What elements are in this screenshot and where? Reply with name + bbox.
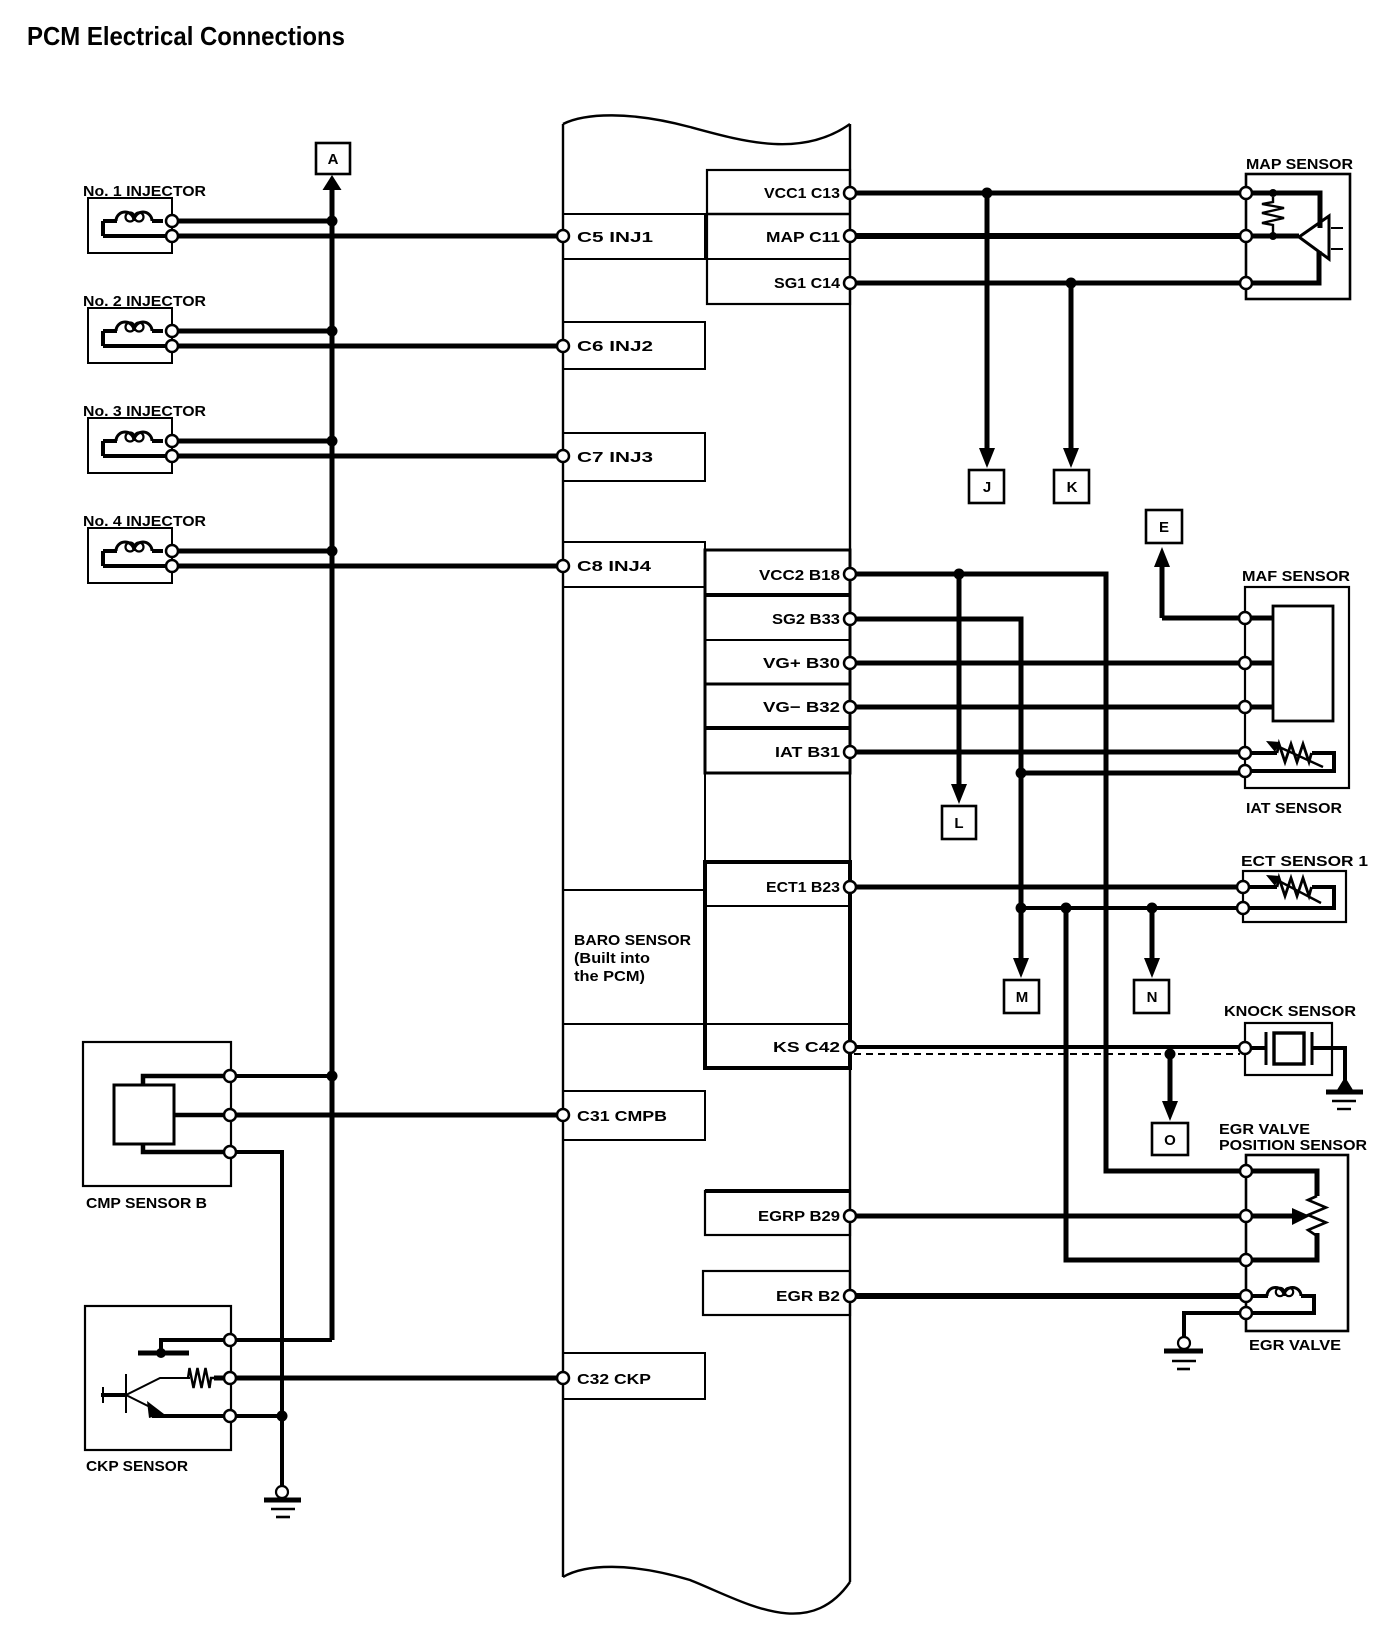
potentiometer R-egrp [1246, 1171, 1317, 1196]
coil L2 [116, 322, 152, 331]
svg-text:CKP SENSOR: CKP SENSOR [86, 1458, 188, 1475]
wire down to connector K [1069, 283, 1074, 450]
wire SG2 branch to IAT sensor [1021, 771, 1245, 776]
wiper arrowhead [1292, 1208, 1310, 1225]
wire VCC2 B18 to EGRP sensor [850, 574, 1246, 1171]
inner partition tall box [563, 587, 705, 890]
ground G-knock [1326, 1077, 1363, 1109]
core contact dot and bar [138, 1351, 189, 1356]
wire IAT B31 to IAT sensor [850, 750, 1245, 755]
junction SG2/ECT return [1016, 903, 1027, 914]
terminal circles injector4 [166, 545, 178, 572]
wire down to connector M [1019, 908, 1024, 960]
junction MAP internal top [1269, 189, 1277, 197]
PCM body outline [563, 115, 850, 1613]
wire down to connector J [985, 193, 990, 450]
wire MAP C11 to MAP sensor [850, 233, 1246, 239]
wire CMP top to bus A [230, 1074, 332, 1078]
junction ECT return/N [1147, 903, 1158, 914]
svg-text:IAT B31: IAT B31 [775, 744, 840, 761]
PCM left pin-label boxes [563, 214, 705, 1399]
wire ECT1 B23 to ECT sensor [850, 885, 1243, 890]
wire SG2 B33 vertical [850, 619, 1021, 908]
piezo element [1245, 1046, 1266, 1050]
connector box J [969, 470, 1004, 503]
injector No.1 body [88, 198, 172, 253]
svg-text:VG+ B30: VG+ B30 [763, 655, 840, 672]
connector box A [316, 143, 350, 174]
PCM left pin labels [577, 229, 667, 1388]
pin box C32 CKP [563, 1353, 705, 1399]
wire MAF power to E [1162, 616, 1245, 621]
wire injector2 to bus A [172, 329, 332, 334]
PCM right pin-group box ECT1/KS [705, 862, 850, 1068]
injector No.2 body [88, 308, 172, 363]
MAF sensor body [1245, 587, 1349, 788]
junction bus/injector2 [327, 326, 338, 337]
svg-text:L: L [954, 815, 963, 832]
connector box K [1054, 470, 1089, 503]
arrowhead to A [323, 175, 342, 190]
PCM left edge terminal circles [557, 230, 569, 1384]
thermistor R-iat [1245, 753, 1334, 771]
ECT thermistor arrowhead [1266, 875, 1280, 886]
svg-text:PCM Electrical Connections: PCM Electrical Connections [27, 21, 345, 51]
svg-text:C32 CKP: C32 CKP [577, 1371, 651, 1388]
wire CKP bottom [152, 1414, 282, 1418]
svg-text:A: A [328, 151, 339, 168]
wire down to connector L [957, 574, 962, 786]
pin box C6 INJ2 [563, 322, 705, 369]
junction VCC1/J [982, 188, 993, 199]
wire injector4 to C8 INJ4 [172, 564, 563, 569]
wire injector1 to bus A [172, 219, 332, 224]
svg-text:SG2 B33: SG2 B33 [772, 611, 840, 628]
junction SG1/K [1066, 278, 1077, 289]
wire EGR B2 to EGR valve [850, 1293, 1246, 1299]
wire EGR valve to ground [1184, 1313, 1246, 1337]
junction SG2/IAT return [1016, 768, 1027, 779]
junction ECT return / EGRP low vertical [1061, 903, 1072, 914]
junction bus/injector3 [327, 436, 338, 447]
svg-text:ECT SENSOR 1: ECT SENSOR 1 [1241, 853, 1368, 870]
svg-text:KS C42: KS C42 [773, 1039, 840, 1056]
injector No.4 body [88, 528, 172, 583]
junction MAP internal bottom [1269, 232, 1277, 240]
pin box C8 INJ4 [563, 542, 705, 587]
connector box N [1134, 980, 1169, 1013]
pin box C5 INJ1 [563, 214, 705, 259]
PCM right pin-group box VCC2..IAT [705, 550, 850, 773]
wiper wire [1246, 1214, 1294, 1219]
CMP sensor B body [83, 1042, 231, 1186]
wire KS C42 to knock sensor [850, 1045, 1245, 1049]
PCM right pin box EGRP B29 [705, 1191, 850, 1235]
pin box C7 INJ3 [563, 433, 705, 481]
svg-text:K: K [1067, 479, 1078, 496]
connector box E with arrow [1160, 565, 1165, 618]
wire SG1 C14 to MAP sensor [850, 281, 1246, 286]
terminal circles CKP [224, 1334, 236, 1422]
svg-text:C7 INJ3: C7 INJ3 [577, 449, 653, 466]
PCM right pin box EGR B2 [703, 1271, 850, 1315]
junction bus/CMP [327, 1071, 338, 1082]
terminal circles injector3 [166, 435, 178, 462]
PCM right edge terminal circles [844, 187, 856, 1302]
svg-text:C8 INJ4: C8 INJ4 [577, 558, 652, 575]
ECT terminal circles [1237, 881, 1249, 914]
svg-text:C31 CMPB: C31 CMPB [577, 1108, 667, 1125]
EGR valve assembly body [1246, 1155, 1348, 1331]
BARO sensor area bottom line [563, 1023, 705, 1025]
resistor R-map [1262, 197, 1284, 233]
resistor R-ckp [188, 1368, 214, 1388]
PCM right pin labels [758, 185, 841, 1305]
IAT thermistor arrowhead [1266, 741, 1280, 752]
wire CMP mid to C31 CMPB [230, 1113, 563, 1118]
wire injector2 to C6 INJ2 [172, 344, 563, 349]
coil L1 [116, 212, 152, 221]
svg-text:MAP C11: MAP C11 [766, 229, 840, 246]
svg-text:MAP SENSOR: MAP SENSOR [1246, 156, 1353, 173]
wire CKP top to bus A [230, 1338, 332, 1342]
winding arrowhead [147, 1401, 164, 1418]
svg-text:(Built into: (Built into [574, 950, 650, 967]
pickup coil internal wiring [161, 1340, 230, 1351]
pin box C31 CMPB [563, 1091, 705, 1140]
MAP sensor body [1246, 174, 1350, 299]
wire EGRP B29 to EGR position sensor [850, 1214, 1246, 1219]
CKP sensor body [85, 1306, 231, 1450]
wire injector1 to C5 INJ1 [172, 234, 563, 239]
thermistor R-ect [1243, 887, 1334, 908]
wire CKP mid to C32 CKP [214, 1376, 563, 1381]
svg-text:VCC2 B18: VCC2 B18 [759, 567, 840, 584]
svg-text:SG1 C14: SG1 C14 [774, 275, 841, 292]
svg-text:the PCM): the PCM) [574, 968, 645, 985]
connector box M [1004, 980, 1039, 1013]
wire down to connector O [1168, 1054, 1173, 1103]
terminal circles CMP [224, 1070, 236, 1158]
svg-text:M: M [1016, 989, 1029, 1006]
wire VCC1 C13 to MAP sensor [850, 191, 1246, 196]
junction bus/injector4 [327, 546, 338, 557]
MAF/IAT terminal circles [1239, 612, 1251, 777]
terminal circles injector2 [166, 325, 178, 352]
svg-text:ECT1 B23: ECT1 B23 [766, 879, 840, 896]
wire EGRP low side vertical [1066, 908, 1246, 1260]
bus wire to connector A [330, 190, 335, 1340]
svg-text:N: N [1147, 989, 1158, 1006]
knock terminal circle [1239, 1042, 1251, 1054]
svg-text:J: J [983, 479, 991, 496]
svg-text:BARO SENSOR: BARO SENSOR [574, 932, 691, 949]
wire injector4 to bus A [172, 549, 332, 554]
wire CMP bottom down to CKP ground net [230, 1152, 282, 1486]
svg-text:C6 INJ2: C6 INJ2 [577, 338, 653, 355]
connector box O [1152, 1123, 1188, 1155]
PCM right pin-group box VCC1/MAP/SG1 [707, 170, 850, 304]
svg-text:VG− B32: VG− B32 [763, 699, 840, 716]
solenoid coil L-egr [1246, 1294, 1268, 1298]
junction bus/injector1 [327, 216, 338, 227]
svg-text:MAF SENSOR: MAF SENSOR [1242, 568, 1350, 585]
svg-text:O: O [1164, 1132, 1176, 1149]
junction CKP/CMP ground net [277, 1411, 288, 1422]
svg-text:EGRP B29: EGRP B29 [758, 1208, 840, 1225]
BARO SENSOR (built into PCM) label [574, 932, 691, 985]
MAP terminal circles [1240, 187, 1252, 289]
junction shield/O [1165, 1049, 1176, 1060]
svg-text:C5 INJ1: C5 INJ1 [577, 229, 653, 246]
coil L3 [116, 432, 152, 441]
EGR terminal circles [1240, 1165, 1252, 1319]
injector No.3 body [88, 418, 172, 473]
ECT sensor body [1243, 871, 1346, 922]
svg-text:EGR VALVE: EGR VALVE [1219, 1121, 1310, 1138]
shield (dashed) of knock sensor wire [854, 1053, 1240, 1055]
wire injector3 to bus A [172, 439, 332, 444]
svg-text:CMP SENSOR B: CMP SENSOR B [86, 1195, 207, 1212]
amplifier triangle [1299, 216, 1329, 259]
svg-text:IAT SENSOR: IAT SENSOR [1246, 800, 1342, 817]
wire VG+ B30 to MAF [850, 661, 1273, 666]
svg-text:EGR VALVE: EGR VALVE [1249, 1337, 1341, 1354]
svg-text:POSITION SENSOR: POSITION SENSOR [1219, 1137, 1367, 1154]
ground G1 (CKP/CMP) [264, 1486, 301, 1517]
wire injector3 to C7 INJ3 [172, 454, 563, 459]
wire ECT return [1021, 906, 1243, 910]
svg-text:VCC1 C13: VCC1 C13 [764, 185, 840, 202]
svg-text:KNOCK SENSOR: KNOCK SENSOR [1224, 1003, 1356, 1020]
junction VCC2/L [954, 569, 965, 580]
svg-text:EGR B2: EGR B2 [776, 1288, 840, 1305]
terminal circles injector1 [166, 215, 178, 242]
wire VG- B32 to MAF [850, 705, 1273, 710]
connector box L [942, 806, 976, 839]
knock sensor body [1245, 1023, 1345, 1080]
coil L4 [116, 542, 152, 551]
svg-text:E: E [1159, 519, 1169, 536]
wire down to connector N [1150, 908, 1155, 960]
ground G-egr [1164, 1337, 1203, 1369]
